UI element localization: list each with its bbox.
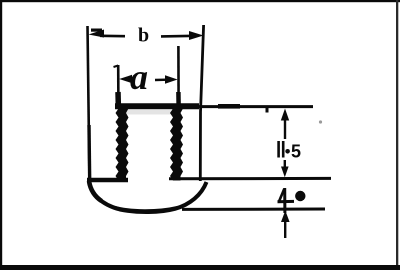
part right shoulder ledge / extension line to dimension <box>169 177 331 180</box>
dimension 11.5 lower tail <box>284 160 286 173</box>
border frame bottom <box>0 265 400 270</box>
part rounded bottom dome <box>89 181 207 212</box>
dimension 4 numeral <box>278 188 295 213</box>
border frame right <box>396 0 398 270</box>
dimension b right extension line / part right outer wall <box>200 25 203 181</box>
dimension b left extension line / part left outer wall <box>88 26 90 183</box>
part left outer wall lower thickening <box>87 125 91 182</box>
dimension a arrowhead left <box>119 75 132 83</box>
dome bottom thickening <box>112 207 178 211</box>
dimension a left extension line <box>117 65 120 104</box>
border frame top <box>0 0 400 2</box>
dimension 11.5 top arrowhead (up) <box>281 109 289 121</box>
dimension 11.5 bottom arrowhead (down) <box>281 167 289 178</box>
bottom tangent extension line to dimension <box>182 208 325 211</box>
part right channel wall (serrated) <box>170 104 183 181</box>
dimension a arrow tail left <box>129 78 135 80</box>
border frame left <box>0 0 2 270</box>
dimension 4 bottom tail <box>284 217 286 238</box>
dimension b arrowhead right <box>189 31 204 40</box>
dimension b arrowhead left <box>89 29 105 38</box>
dimension a right extension junction thickening <box>176 92 181 104</box>
part left shoulder ledge <box>87 178 128 182</box>
dimension 11.5 upper tail <box>284 115 286 139</box>
extension line from part top to dimension 11.5 <box>199 105 313 108</box>
dimension a left extension junction thickening <box>115 92 121 104</box>
dimension a line right segment <box>155 78 172 81</box>
svg-text:b: b <box>138 25 149 47</box>
extension line blob <box>218 104 240 109</box>
part top surface shadow <box>126 110 171 115</box>
svg-text:5: 5 <box>291 142 301 162</box>
dimension 4 decimal dot <box>295 191 305 201</box>
dimension b line left segment <box>100 34 125 37</box>
dimension a right extension line <box>177 46 180 104</box>
dimension a arrowhead right <box>165 75 178 83</box>
dimension a extension hook <box>114 66 119 68</box>
scan speck <box>319 120 322 123</box>
part top surface <box>115 103 199 109</box>
part left channel wall (serrated) <box>116 104 129 181</box>
small tick on top extension line <box>266 107 269 113</box>
dimension b line right segment <box>161 34 196 37</box>
svg-text:a: a <box>130 57 148 97</box>
dome left descent thickening <box>89 181 102 201</box>
dimension 4 bottom arrowhead (up) <box>281 211 290 223</box>
dimension 11.5 label <box>279 141 301 162</box>
